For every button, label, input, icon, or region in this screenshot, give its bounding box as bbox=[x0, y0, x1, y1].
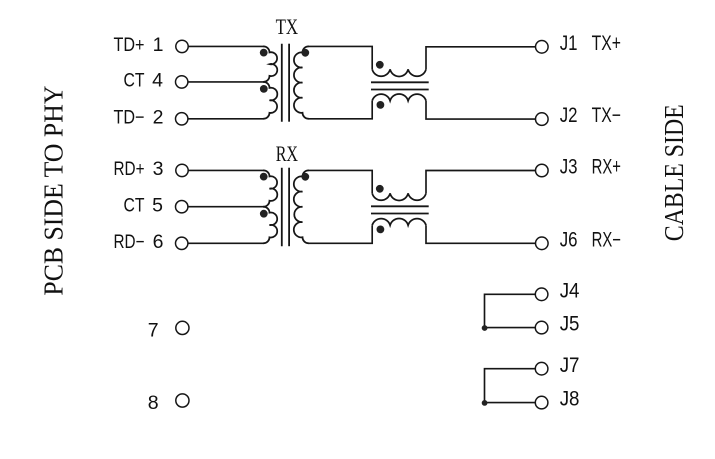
choke RX core line 2 bbox=[371, 213, 429, 215]
choke RX core line 1 bbox=[371, 205, 429, 207]
svg-text:J5: J5 bbox=[560, 313, 580, 336]
pin circle RX-top left terminal bbox=[176, 164, 188, 176]
phase dot TX choke lower bbox=[377, 101, 385, 109]
wire RX choke top to J terminal bbox=[426, 171, 535, 194]
wire TX top pin to primary bbox=[188, 45, 263, 47]
J terminal circle J7 bbox=[535, 362, 548, 375]
phase dot RX primary lower bbox=[260, 210, 268, 218]
wire RX top pin to primary bbox=[188, 169, 263, 171]
svg-text:4: 4 bbox=[152, 70, 163, 92]
transformer TX primary winding upper half bbox=[263, 46, 277, 82]
wire TX secondary top to choke bbox=[309, 46, 373, 69]
svg-text:J4: J4 bbox=[560, 279, 580, 302]
svg-text:RX+: RX+ bbox=[592, 156, 621, 179]
junction node J7/J8 bbox=[482, 400, 488, 406]
J terminal circle RX bottom bbox=[536, 237, 549, 250]
pin circle 7 (unconnected) bbox=[176, 321, 189, 334]
svg-text:PCB SIDE TO PHY: PCB SIDE TO PHY bbox=[39, 86, 69, 296]
wire RX choke bottom to J terminal bbox=[426, 225, 535, 243]
transformer RX core line 2 bbox=[288, 168, 290, 247]
phase dot TX primary lower bbox=[260, 85, 268, 93]
common-mode choke TX upper winding bbox=[372, 69, 426, 76]
J terminal circle J4 bbox=[535, 288, 548, 301]
pin circle 8 (unconnected) bbox=[176, 394, 189, 407]
transformer RX primary winding lower half bbox=[263, 207, 277, 244]
wire RX bottom pin to primary bbox=[188, 242, 264, 244]
svg-text:7: 7 bbox=[148, 320, 159, 342]
common-mode choke TX lower winding bbox=[372, 94, 426, 101]
svg-text:TD−: TD− bbox=[114, 107, 145, 129]
J terminal circle TX top bbox=[536, 41, 549, 54]
wire TX secondary bottom to choke bbox=[309, 101, 373, 119]
svg-text:TD+: TD+ bbox=[114, 34, 145, 56]
transformer RX core line 1 bbox=[281, 168, 283, 247]
phase dot TX secondary bbox=[301, 49, 309, 57]
transformer TX primary winding lower half bbox=[263, 82, 277, 119]
svg-text:RX−: RX− bbox=[592, 228, 621, 251]
transformer RX secondary winding bbox=[294, 170, 309, 243]
svg-text:J7: J7 bbox=[560, 354, 580, 377]
wire RX center-tap pin to primary bbox=[188, 206, 264, 208]
svg-text:RD−: RD− bbox=[114, 231, 145, 253]
transformer TX secondary winding bbox=[294, 46, 309, 118]
J terminal circle RX top bbox=[536, 164, 549, 177]
choke TX core line 2 bbox=[371, 89, 429, 91]
transformer RX primary winding upper half bbox=[263, 170, 277, 206]
pin circle RX-ct left terminal bbox=[176, 201, 188, 213]
svg-text:3: 3 bbox=[153, 158, 164, 180]
svg-text:TX: TX bbox=[276, 14, 299, 39]
choke TX core line 1 bbox=[371, 81, 429, 83]
svg-text:1: 1 bbox=[153, 34, 164, 56]
svg-text:CT: CT bbox=[124, 70, 145, 92]
wire TX choke top to J terminal bbox=[426, 47, 535, 70]
wire TX center-tap pin to primary bbox=[188, 81, 264, 83]
svg-text:6: 6 bbox=[153, 231, 164, 253]
phase dot TX primary upper bbox=[260, 49, 268, 57]
pin circle TX-ct left terminal bbox=[176, 76, 188, 88]
svg-text:RD+: RD+ bbox=[114, 158, 145, 180]
J terminal circle J5 bbox=[535, 321, 548, 334]
wire J4-J5 short bbox=[485, 294, 536, 327]
svg-text:TX−: TX− bbox=[592, 104, 621, 127]
phase dot RX choke upper bbox=[376, 185, 384, 193]
wire TX bottom pin to primary bbox=[188, 118, 264, 120]
common-mode choke RX lower winding bbox=[372, 218, 426, 225]
svg-text:5: 5 bbox=[152, 195, 163, 217]
phase dot RX primary upper bbox=[260, 173, 268, 181]
pin circle TX-bot left terminal bbox=[176, 113, 188, 125]
transformer TX core line 1 bbox=[281, 44, 283, 122]
common-mode choke RX upper winding bbox=[372, 193, 426, 200]
svg-text:J8: J8 bbox=[560, 388, 580, 411]
wire TX choke bottom to J terminal bbox=[426, 101, 535, 119]
phase dot TX choke upper bbox=[376, 61, 384, 69]
transformer TX core line 2 bbox=[288, 44, 290, 122]
wire RX secondary top to choke bbox=[309, 170, 373, 193]
J terminal circle TX bottom bbox=[536, 113, 549, 126]
svg-text:RX: RX bbox=[276, 141, 298, 166]
svg-text:J2: J2 bbox=[560, 104, 578, 127]
svg-text:J6: J6 bbox=[560, 228, 578, 251]
pin circle RX-bot left terminal bbox=[176, 237, 188, 249]
svg-text:J1: J1 bbox=[560, 32, 578, 55]
svg-text:J3: J3 bbox=[560, 156, 578, 179]
phase dot RX choke lower bbox=[377, 226, 385, 234]
svg-text:CT: CT bbox=[124, 195, 145, 217]
svg-text:2: 2 bbox=[153, 107, 164, 129]
pin circle TX-top left terminal bbox=[176, 40, 188, 52]
phase dot RX secondary bbox=[301, 173, 309, 181]
svg-text:CABLE SIDE: CABLE SIDE bbox=[659, 104, 689, 241]
junction node J4/J5 bbox=[482, 325, 488, 331]
svg-text:TX+: TX+ bbox=[592, 32, 621, 55]
J terminal circle J8 bbox=[535, 396, 548, 409]
svg-text:8: 8 bbox=[148, 392, 159, 414]
wire RX secondary bottom to choke bbox=[309, 225, 373, 243]
wire J7-J8 short bbox=[485, 369, 536, 403]
